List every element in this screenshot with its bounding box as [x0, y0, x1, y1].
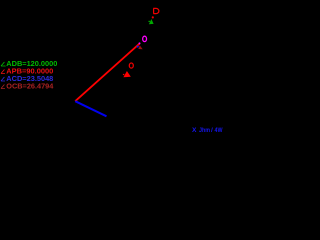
label O (red) [129, 63, 133, 68]
point D (red) [152, 16, 154, 18]
blue dot on ray [137, 46, 139, 48]
green marker arrow [149, 19, 154, 24]
svg-text:/: / [211, 127, 213, 134]
blue ray [75, 101, 106, 116]
red ray [75, 44, 139, 101]
svg-text:X: X [192, 127, 197, 134]
label O (magenta) [143, 36, 147, 41]
red marker dot [123, 74, 124, 75]
point at ray tip (magenta) [139, 42, 141, 44]
red marker arrow [123, 71, 130, 77]
dark red marker triangle [138, 45, 142, 49]
measurement text ∠ADB (green) [1, 59, 57, 68]
measurement text ∠OCB (dark red) [1, 82, 54, 91]
green marker tick [149, 21, 150, 22]
measurement text ∠ACD (blue) [1, 74, 53, 83]
measurement text ∠APB (red) [1, 67, 53, 76]
svg-text:4W: 4W [215, 127, 224, 134]
label D (red) [153, 8, 159, 13]
svg-text:Jhm: Jhm [199, 127, 210, 134]
svg-text:OCB=26.4794: OCB=26.4794 [6, 82, 54, 91]
